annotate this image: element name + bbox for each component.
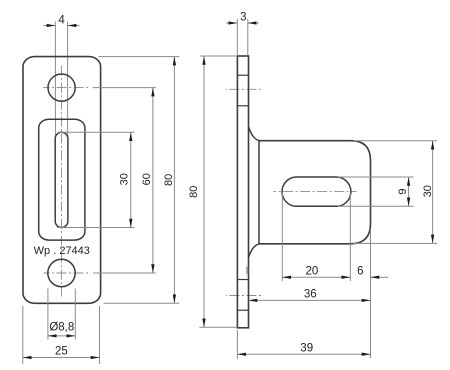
dimension 80 text (rotated, left view) xyxy=(163,174,175,186)
extension line: boss bottom (30 dim right view) xyxy=(353,242,437,244)
extension line: slot width left (4 dim), runs through plate xyxy=(54,22,56,139)
centerline: plate vertical axis xyxy=(61,63,63,297)
svg-text:60: 60 xyxy=(141,173,153,185)
svg-text:30: 30 xyxy=(119,173,131,185)
extension line: plate thickness left (3 dim) xyxy=(236,19,238,55)
dimension 80 line with arrows (left view) xyxy=(173,57,175,304)
bottom hole edge lines (side view) xyxy=(237,279,248,281)
centerline: bottom hole horizontal xyxy=(44,272,90,274)
slot (stadium) xyxy=(55,132,68,227)
svg-text:Ø8,8: Ø8,8 xyxy=(49,321,74,333)
svg-text:36: 36 xyxy=(304,288,317,300)
svg-text:6: 6 xyxy=(357,266,363,278)
top hole edge lines (side view) xyxy=(237,74,248,76)
dimension 3: left arrow xyxy=(226,22,237,24)
svg-text:3: 3 xyxy=(240,12,246,24)
extension line: slot bottom (9 dim) xyxy=(338,205,414,207)
dimension 80 text (rotated, right view) xyxy=(188,186,200,198)
dimension 8,8 line with arrows xyxy=(48,335,75,337)
dimension 36 line with arrows xyxy=(249,299,371,301)
dimension 3: right arrow xyxy=(248,22,259,24)
centerline: bottom hole (side view) xyxy=(226,295,261,297)
dimension 39 line with arrows xyxy=(237,353,370,355)
extension line: top hole center (60 dim) xyxy=(93,87,156,89)
extension line: bottom hole center (60 dim) xyxy=(93,272,156,274)
boss silhouette (side view) with fillets xyxy=(249,127,259,141)
extension line: plate top (80 dim left view) xyxy=(98,56,179,58)
svg-text:80: 80 xyxy=(188,186,200,198)
dimension 30 text (rotated) xyxy=(119,173,131,185)
svg-text:9: 9 xyxy=(397,189,409,195)
extension line: plate right edge (25 dim) xyxy=(99,306,101,364)
extension line: right plate top (80 dim right view) xyxy=(200,55,237,57)
dimension 80 line with arrows (right view) xyxy=(203,56,205,327)
centerline: top hole (side view) xyxy=(226,88,262,90)
dimension 25 line with arrows xyxy=(23,357,100,359)
svg-text:4: 4 xyxy=(58,15,65,27)
dimension 9 line with arrows xyxy=(408,177,410,206)
svg-text:Wp . 27443: Wp . 27443 xyxy=(34,245,90,257)
boss left edge vertical xyxy=(258,141,260,244)
extension line: plate left edge (25 dim) xyxy=(22,306,24,364)
small grey tick on plate right edge xyxy=(246,267,248,275)
extension line: plate left edge below (39 dim) xyxy=(236,330,238,359)
svg-text:39: 39 xyxy=(300,342,313,354)
extension line: bottom hole left edge (dia 8,8) xyxy=(47,289,49,340)
plate outline (side view) xyxy=(237,56,248,328)
slot (side view stadium) xyxy=(282,177,351,206)
centerline: top hole horizontal xyxy=(43,87,90,89)
svg-text:30: 30 xyxy=(422,185,434,197)
extension line: plate thickness right (3 dim) xyxy=(247,19,249,55)
extension line: boss top (30 dim right view) xyxy=(354,140,437,142)
dimension 30 line with arrows (right view) xyxy=(432,141,434,244)
extension line: bottom hole right edge (dia 8,8) xyxy=(74,289,76,340)
extension line: slot left end (20 dim) xyxy=(281,193,283,282)
dimension 30 text (rotated, right view) xyxy=(422,185,434,197)
bottom hole xyxy=(48,259,75,286)
extension line: slot right end (20/6 dim) xyxy=(349,193,351,281)
bottom fillet xyxy=(249,244,259,258)
dimension 20 line with arrows xyxy=(282,276,350,278)
extension line: plate bottom (80 dim left view) xyxy=(104,302,180,304)
svg-text:80: 80 xyxy=(163,174,175,186)
extension line: boss right edge (6/36/39 dims) xyxy=(370,230,372,358)
dimension 6 outside arrow xyxy=(371,276,389,278)
dimension 30 line with arrows xyxy=(130,132,132,227)
svg-text:20: 20 xyxy=(306,266,319,278)
extension line: slot bottom (30 dim) xyxy=(57,227,134,229)
dimension 4: left arrow xyxy=(44,25,56,27)
dimension 9 text (rotated) xyxy=(397,189,409,195)
extension line: slot width right (4 dim) xyxy=(67,22,69,139)
extension line: slot top (9 dim) xyxy=(338,176,414,178)
boss outline (rounded rect around slot) xyxy=(39,119,85,240)
dimension 60 line with arrows xyxy=(152,88,154,273)
dimension 4: right arrow xyxy=(68,25,80,27)
extension line: slot top (30 dim) xyxy=(58,131,134,133)
svg-text:25: 25 xyxy=(55,346,68,358)
dimension 60 text (rotated) xyxy=(141,173,153,185)
top hole xyxy=(48,74,75,101)
extension line: right plate bottom (80 dim right view) xyxy=(199,326,237,328)
centerline: slot horizontal (side view) xyxy=(274,191,357,193)
plate outline (front view rounded rectangle) xyxy=(23,57,101,304)
